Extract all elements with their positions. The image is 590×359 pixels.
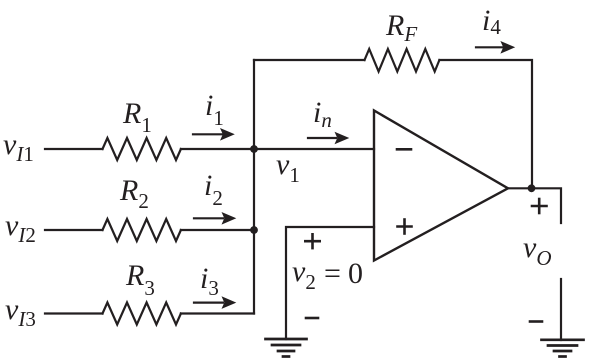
svg-text:R3: R3: [125, 259, 155, 300]
plus sign vO: [532, 199, 547, 213]
svg-text:v1: v1: [276, 148, 300, 187]
op-amp U1 triangle: [374, 111, 508, 261]
svg-text:vI1: vI1: [3, 128, 34, 166]
wire feedback top left: [254, 59, 365, 61]
wire summing bus vertical: [253, 60, 255, 314]
svg-text:vI3: vI3: [5, 293, 36, 331]
resistor RF: [365, 49, 440, 72]
wire R1 to node v1: [181, 148, 374, 150]
svg-text:=: =: [324, 257, 341, 290]
svg-text:vI2: vI2: [5, 209, 36, 247]
svg-text:i3: i3: [200, 262, 219, 300]
wire R3 to bus: [181, 312, 254, 314]
wire feedback top right: [439, 60, 532, 188]
wire R2 to node: [181, 229, 254, 231]
op-amp inverting input minus mark: [397, 148, 411, 151]
node junction dot (R2 row): [250, 226, 258, 234]
node v1 junction dot: [250, 145, 258, 153]
resistor R2: [103, 219, 181, 241]
wire op-amp output: [508, 188, 561, 223]
current arrow i3: [194, 296, 236, 309]
wire output lower stub: [560, 279, 562, 340]
wire vI2 lead: [45, 229, 103, 231]
current arrow i1: [193, 128, 235, 141]
current arrow i4: [476, 41, 515, 54]
svg-text:i1: i1: [205, 89, 224, 130]
svg-text:i2: i2: [204, 169, 223, 210]
svg-text:R2: R2: [119, 174, 149, 213]
svg-text:v2: v2: [292, 255, 316, 294]
output node dot: [528, 184, 536, 192]
op-amp noninverting input plus mark: [398, 220, 412, 234]
minus sign v2: [306, 317, 318, 320]
svg-text:R1: R1: [122, 97, 152, 137]
svg-text:vO: vO: [523, 231, 552, 270]
current arrow i2: [194, 212, 236, 225]
minus sign vO: [530, 320, 542, 323]
wire vI1 lead: [45, 148, 103, 150]
svg-text:i4: i4: [482, 4, 501, 39]
wire noninverting input: [286, 227, 374, 339]
current arrow in: [308, 132, 349, 145]
resistor R1: [103, 138, 181, 160]
ground (output): [542, 340, 584, 357]
svg-text:RF: RF: [385, 9, 417, 46]
resistor R3: [103, 303, 181, 325]
wire vI3 lead: [45, 312, 103, 314]
svg-text:in: in: [313, 96, 332, 132]
svg-text:0: 0: [348, 257, 363, 290]
plus sign v2: [305, 234, 319, 248]
ground (noninverting input): [266, 339, 307, 357]
